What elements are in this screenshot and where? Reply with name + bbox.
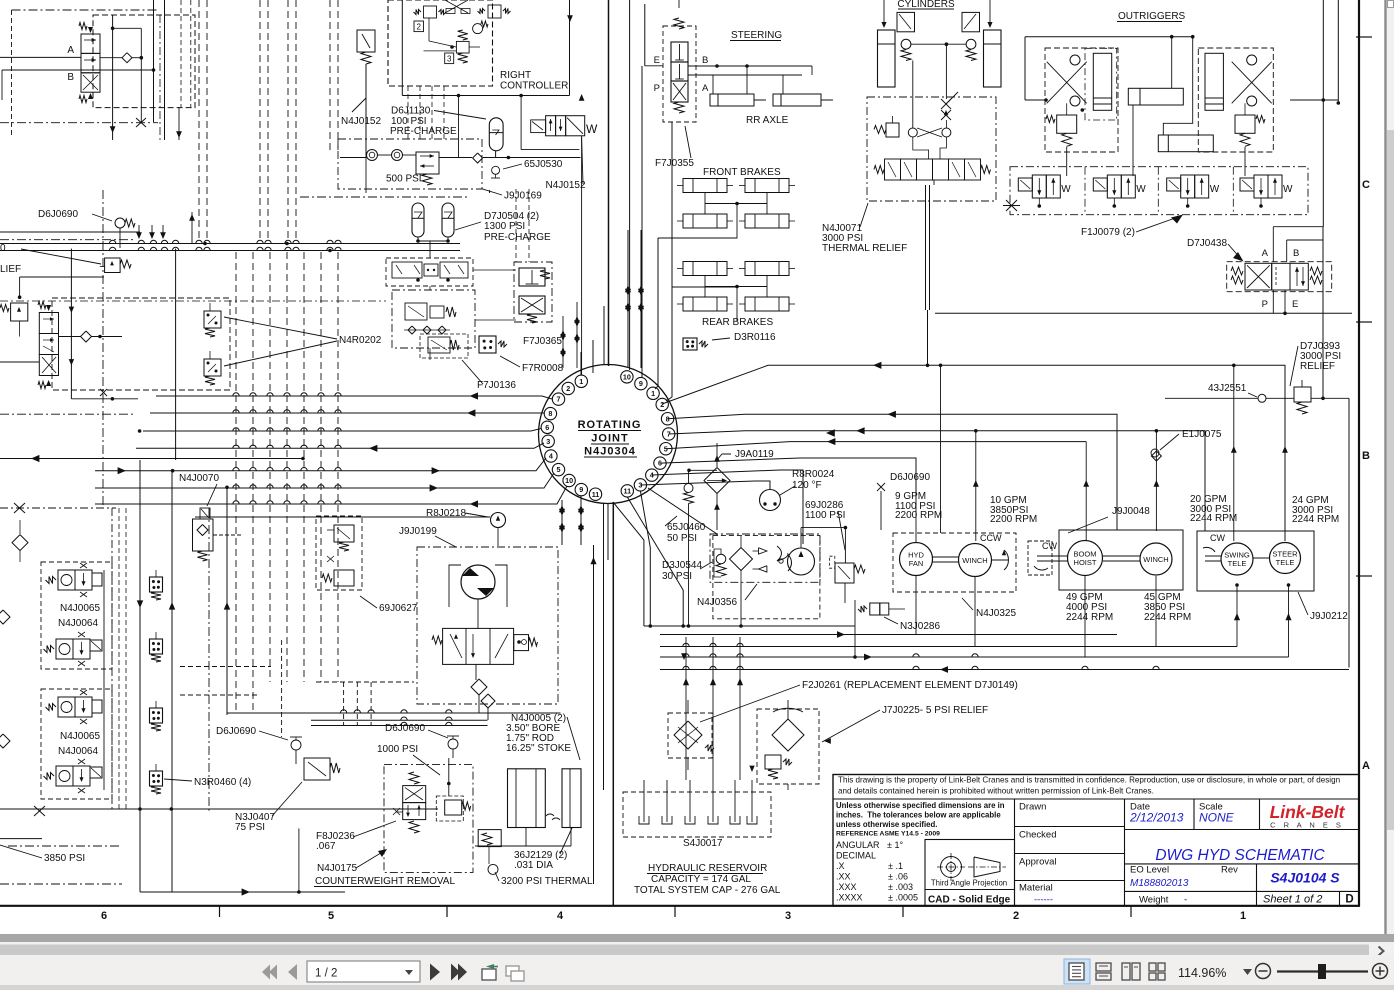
svg-text:4: 4: [557, 910, 564, 922]
svg-text:WINCH: WINCH: [1143, 555, 1168, 564]
svg-text:TOTAL SYSTEM CAP - 276 GAL: TOTAL SYSTEM CAP - 276 GAL: [634, 885, 781, 896]
svg-text:9: 9: [579, 485, 583, 494]
svg-text:STEERING: STEERING: [731, 30, 782, 41]
svg-text:3: 3: [546, 437, 550, 446]
svg-text:65J0530: 65J0530: [524, 159, 563, 170]
svg-text:N4J0065: N4J0065: [60, 603, 100, 614]
svg-text:REFERENCE ASME Y14.5 - 2009: REFERENCE ASME Y14.5 - 2009: [836, 831, 940, 838]
svg-text:REAR BRAKES: REAR BRAKES: [702, 317, 773, 328]
svg-text:1000 PSI: 1000 PSI: [377, 744, 418, 755]
svg-text:D3J0544: D3J0544: [662, 560, 702, 571]
svg-text:FRONT BRAKES: FRONT BRAKES: [703, 167, 781, 178]
svg-text:± .06: ± .06: [888, 872, 908, 882]
svg-text:0: 0: [0, 243, 6, 254]
svg-text:W: W: [1210, 184, 1220, 195]
svg-text:B: B: [702, 55, 708, 66]
svg-text:16.25" STOKE: 16.25" STOKE: [506, 743, 571, 754]
svg-text:A: A: [1362, 760, 1370, 772]
svg-text:D6J1130: D6J1130: [391, 106, 431, 117]
svg-text:R8J0218: R8J0218: [426, 508, 466, 519]
svg-text:5: 5: [557, 465, 561, 474]
svg-text:J9J0169: J9J0169: [504, 191, 542, 202]
svg-text:114.96%: 114.96%: [1178, 966, 1226, 980]
svg-text:2244 RPM: 2244 RPM: [1144, 612, 1191, 623]
svg-text:F7J0355: F7J0355: [655, 158, 694, 169]
svg-text:A: A: [702, 83, 709, 94]
svg-text:M188802013: M188802013: [1130, 878, 1189, 889]
svg-text:P: P: [1262, 299, 1268, 310]
svg-text:3850 PSI: 3850 PSI: [44, 853, 85, 864]
svg-text:2200 RPM: 2200 RPM: [895, 510, 942, 521]
svg-text:S4J0104 S: S4J0104 S: [1270, 870, 1340, 886]
svg-text:1300 PSI: 1300 PSI: [484, 221, 525, 232]
svg-text:PRE-CHARGE: PRE-CHARGE: [484, 232, 551, 243]
svg-text:E1J0075: E1J0075: [1182, 429, 1222, 440]
svg-text:J9J0212: J9J0212: [1310, 611, 1348, 622]
svg-text:± .003: ± .003: [888, 882, 913, 892]
svg-text:ANGULAR ± 1°: ANGULAR ± 1°: [836, 840, 903, 850]
svg-text:F7J0136: F7J0136: [477, 380, 516, 391]
svg-text:FAN: FAN: [909, 559, 924, 568]
svg-text:Unless otherwise specified dim: Unless otherwise specified dimensions ar…: [836, 801, 1005, 810]
svg-text:RR AXLE: RR AXLE: [746, 115, 789, 126]
svg-text:J9J0199: J9J0199: [399, 526, 437, 537]
svg-text:11: 11: [623, 487, 631, 496]
svg-text:HOIST: HOIST: [1074, 558, 1097, 567]
svg-text:W: W: [1136, 184, 1146, 195]
svg-text:D7J0438: D7J0438: [1187, 238, 1227, 249]
svg-text:N4J0356: N4J0356: [697, 597, 737, 608]
svg-text:5: 5: [328, 910, 334, 922]
svg-text:W: W: [1061, 184, 1071, 195]
svg-text:E: E: [654, 55, 660, 66]
svg-text:C: C: [1362, 179, 1370, 191]
svg-text:inches. The tolerances below: inches. The tolerances below are applica…: [836, 811, 1001, 820]
svg-text:C R A N E S: C R A N E S: [1270, 821, 1344, 830]
svg-text:3: 3: [447, 55, 452, 64]
svg-text:69J0627: 69J0627: [379, 603, 418, 614]
svg-text:30 PSI: 30 PSI: [662, 571, 692, 582]
svg-text:D3R0116: D3R0116: [734, 332, 776, 343]
svg-text:Third Angle Projection: Third Angle Projection: [931, 879, 1007, 888]
svg-text:D: D: [1345, 894, 1353, 906]
svg-text:Link-Belt: Link-Belt: [1270, 802, 1346, 822]
svg-text:10: 10: [623, 373, 631, 382]
svg-text:D6J0690: D6J0690: [38, 209, 78, 220]
svg-text:.XXX: .XXX: [836, 882, 857, 892]
svg-text:B: B: [67, 72, 74, 83]
svg-text:OUTRIGGERS: OUTRIGGERS: [1118, 11, 1186, 22]
svg-text:3200 PSI THERMAL: 3200 PSI THERMAL: [501, 876, 593, 887]
svg-text:F7R0008: F7R0008: [522, 363, 564, 374]
svg-text:DWG HYD SCHEMATIC: DWG HYD SCHEMATIC: [1155, 847, 1325, 864]
svg-text:2: 2: [660, 400, 664, 409]
svg-text:2244 RPM: 2244 RPM: [1292, 514, 1339, 525]
svg-text:CONTROLLER: CONTROLLER: [500, 81, 568, 92]
svg-text:N4J0152: N4J0152: [546, 180, 586, 191]
svg-text:500 PSI: 500 PSI: [386, 174, 422, 185]
svg-text:4: 4: [549, 452, 553, 461]
svg-text:Checked: Checked: [1019, 830, 1057, 841]
svg-text:This drawing is the property o: This drawing is the property of Link-Bel…: [838, 776, 1340, 785]
svg-text:WINCH: WINCH: [962, 556, 987, 565]
svg-text:Sheet 1 of 2: Sheet 1 of 2: [1263, 894, 1322, 906]
svg-text:E: E: [1292, 299, 1298, 310]
svg-text:1 / 2: 1 / 2: [315, 968, 337, 980]
svg-text:N4J0064: N4J0064: [58, 618, 98, 629]
svg-text:B: B: [1362, 450, 1370, 462]
svg-text:.XX: .XX: [836, 872, 851, 882]
svg-text:Approval: Approval: [1019, 857, 1057, 868]
svg-text:Rev: Rev: [1221, 865, 1238, 876]
svg-text:CYLINDERS: CYLINDERS: [897, 0, 955, 10]
svg-text:2: 2: [566, 384, 570, 393]
svg-text:N4J0070: N4J0070: [179, 473, 219, 484]
svg-text:J9A0119: J9A0119: [735, 449, 774, 460]
svg-text:2244 RPM: 2244 RPM: [1190, 513, 1237, 524]
svg-text:F7J0365: F7J0365: [523, 336, 562, 347]
svg-text:THERMAL RELIEF: THERMAL RELIEF: [822, 243, 907, 254]
svg-text:N4J0064: N4J0064: [58, 746, 98, 757]
svg-text:TELE: TELE: [1228, 559, 1247, 568]
svg-text:ROTATING: ROTATING: [578, 419, 642, 431]
svg-text:6: 6: [101, 910, 107, 922]
svg-text:N4J0325: N4J0325: [976, 608, 1016, 619]
svg-text:DECIMAL: DECIMAL: [836, 851, 876, 861]
svg-text:± .1: ± .1: [888, 861, 903, 871]
svg-text:N4R0202: N4R0202: [339, 335, 382, 346]
svg-text:10: 10: [565, 476, 573, 485]
svg-text:65J0460: 65J0460: [667, 522, 706, 533]
svg-text:TELE: TELE: [1276, 558, 1295, 567]
svg-text:11: 11: [592, 490, 600, 499]
svg-text:F2J0261 (REPLACEMENT ELEMENT D: F2J0261 (REPLACEMENT ELEMENT D7J0149): [802, 680, 1018, 691]
svg-text:.XXXX: .XXXX: [836, 893, 863, 903]
svg-text:B: B: [1293, 248, 1299, 259]
svg-text:COUNTERWEIGHT REMOVAL: COUNTERWEIGHT REMOVAL: [315, 876, 455, 887]
svg-text:N4J0152: N4J0152: [341, 116, 381, 127]
svg-text:1: 1: [579, 377, 583, 386]
svg-text:Weight: Weight: [1139, 895, 1169, 906]
svg-text:and details contained herein i: and details contained herein is prohibit…: [838, 787, 1154, 796]
svg-text:A: A: [67, 45, 74, 56]
svg-text:N3R0460 (4): N3R0460 (4): [194, 777, 251, 788]
svg-text:8: 8: [548, 409, 552, 418]
svg-text:R8R0024: R8R0024: [792, 469, 835, 480]
svg-text:2: 2: [1013, 910, 1019, 922]
svg-text:D6J0690: D6J0690: [890, 472, 930, 483]
svg-text:9: 9: [639, 379, 643, 388]
svg-text:JOINT: JOINT: [591, 433, 628, 445]
svg-text:N4J0304: N4J0304: [584, 446, 636, 458]
svg-text:EO Level: EO Level: [1130, 865, 1169, 876]
svg-text:J7J0225- 5 PSI RELIEF: J7J0225- 5 PSI RELIEF: [882, 705, 988, 716]
svg-text:Material: Material: [1019, 883, 1053, 894]
svg-text:6: 6: [545, 423, 549, 432]
svg-text:N3J0286: N3J0286: [900, 621, 940, 632]
svg-text:CCW: CCW: [980, 533, 1002, 543]
svg-text:CW: CW: [1210, 533, 1225, 543]
svg-text:D6J0690: D6J0690: [216, 726, 256, 737]
svg-text:7: 7: [557, 395, 561, 404]
svg-text:A: A: [1262, 248, 1269, 259]
svg-text:HYDRAULIC RESERVOIR: HYDRAULIC RESERVOIR: [648, 863, 767, 874]
svg-text:CAD - Solid Edge: CAD - Solid Edge: [928, 895, 1011, 906]
svg-text:43J2551: 43J2551: [1208, 383, 1247, 394]
svg-text:.067: .067: [316, 841, 336, 852]
svg-text:LIEF: LIEF: [0, 264, 21, 275]
svg-text:2244 RPM: 2244 RPM: [1066, 612, 1113, 623]
svg-text:S4J0017: S4J0017: [683, 838, 723, 849]
svg-text:Drawn: Drawn: [1019, 802, 1046, 813]
svg-text:.031 DIA: .031 DIA: [514, 860, 553, 871]
svg-text:------: ------: [1034, 895, 1053, 906]
svg-text:1: 1: [651, 389, 655, 398]
svg-text:PRE-CHARGE: PRE-CHARGE: [390, 126, 457, 137]
svg-text:2: 2: [416, 23, 421, 32]
svg-text:W: W: [1283, 184, 1293, 195]
svg-text:.X: .X: [836, 861, 845, 871]
svg-text:120 °F: 120 °F: [792, 480, 822, 491]
svg-text:2/12/2013: 2/12/2013: [1129, 811, 1184, 825]
svg-text:N4J0065: N4J0065: [60, 731, 100, 742]
svg-text:P: P: [654, 83, 660, 94]
svg-text:3: 3: [785, 910, 791, 922]
svg-text:J9J0048: J9J0048: [1112, 506, 1150, 517]
svg-text:CAPACITY = 174 GAL: CAPACITY = 174 GAL: [651, 874, 751, 885]
svg-text:CW: CW: [1042, 541, 1057, 551]
svg-text:-: -: [1184, 895, 1187, 906]
svg-text:D6J0690: D6J0690: [385, 723, 425, 734]
svg-text:N4J0175: N4J0175: [317, 863, 357, 874]
svg-text:unless otherwise specified.: unless otherwise specified.: [836, 820, 937, 829]
svg-text:50 PSI: 50 PSI: [667, 533, 697, 544]
svg-text:75 PSI: 75 PSI: [235, 822, 265, 833]
svg-text:1: 1: [1240, 910, 1246, 922]
svg-text:NONE: NONE: [1199, 811, 1235, 825]
svg-text:± .0005: ± .0005: [888, 893, 918, 903]
svg-text:2200 RPM: 2200 RPM: [990, 514, 1037, 525]
svg-text:F1J0079 (2): F1J0079 (2): [1081, 227, 1135, 238]
svg-text:RIGHT: RIGHT: [500, 70, 531, 81]
svg-text:RELIEF: RELIEF: [1300, 361, 1335, 372]
svg-text:W: W: [586, 122, 598, 136]
